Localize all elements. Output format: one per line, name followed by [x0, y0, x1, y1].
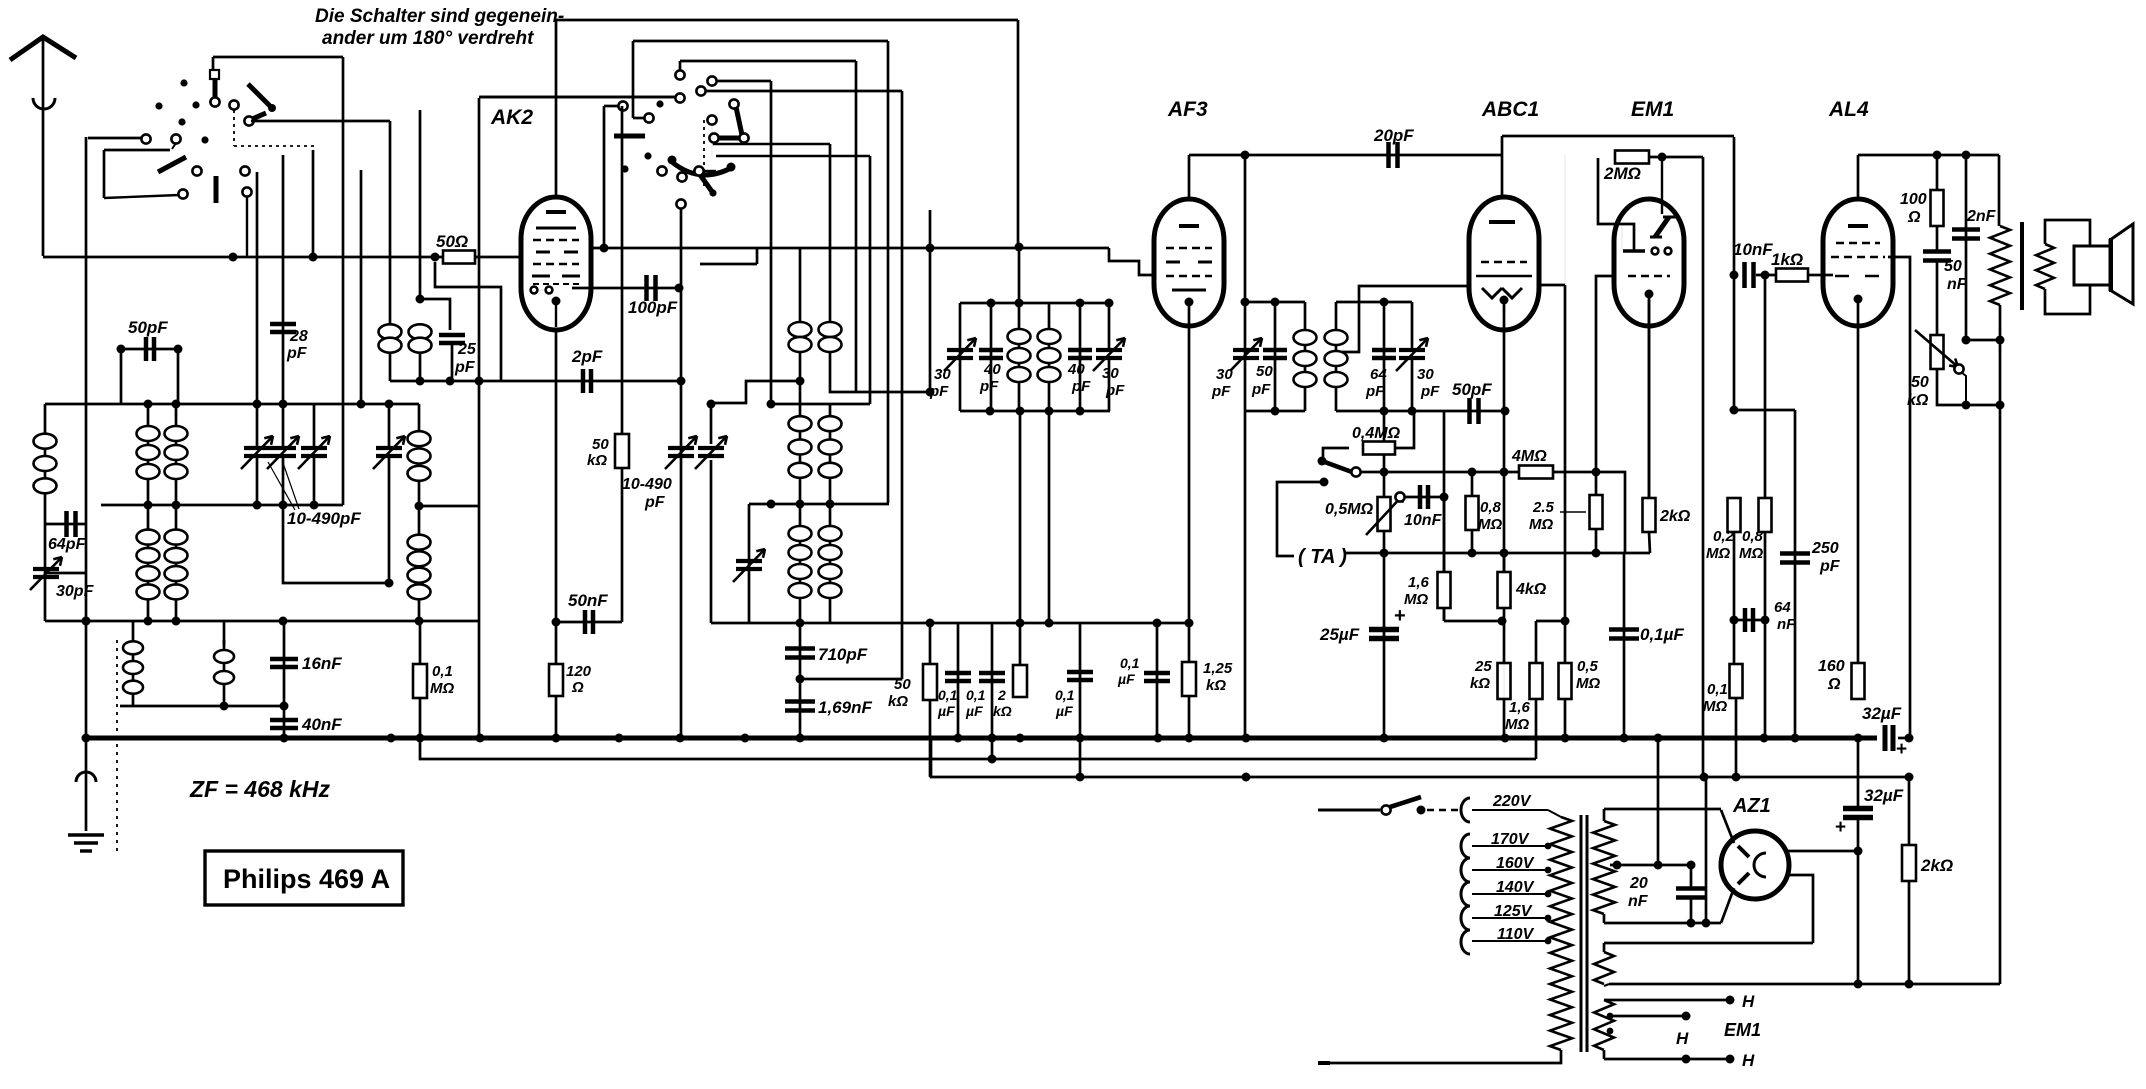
tube AK2 grid	[532, 275, 580, 278]
svg-text:AF3: AF3	[1167, 98, 1208, 121]
resistor 0.5Mohm	[1564, 621, 1567, 738]
resistor 50kohm	[615, 434, 629, 468]
wire AK2 anode to AF3 grid	[591, 247, 1109, 250]
wire	[1649, 156, 1703, 159]
wire right side down	[1999, 405, 2002, 984]
IF1 bottom	[960, 410, 1110, 413]
wire	[1244, 155, 1247, 302]
svg-text:220V: 220V	[1492, 793, 1532, 810]
svg-text:ABC1: ABC1	[1481, 98, 1539, 121]
heater tap2	[1607, 1028, 1614, 1035]
svg-text:µF: µF	[1117, 671, 1135, 687]
switch S2 box2	[633, 40, 888, 43]
tube AL4 cathode	[1854, 295, 1863, 304]
coil	[389, 325, 392, 381]
svg-text:µF: µF	[937, 703, 955, 719]
tube EM1 contacts	[1652, 248, 1659, 255]
ganged capacitor 10-490pF	[244, 448, 270, 456]
svg-text:2pF: 2pF	[571, 347, 603, 366]
node	[1076, 773, 1085, 782]
wire	[419, 110, 422, 299]
transformer secondary HV	[1593, 821, 1615, 914]
wire AZ1 out	[1788, 850, 1858, 853]
svg-text:4MΩ: 4MΩ	[1511, 448, 1547, 465]
tube ABC1 grids	[1481, 261, 1527, 263]
svg-text:10nF: 10nF	[1404, 512, 1443, 529]
wire EM1 cathode	[1648, 294, 1651, 498]
coil L2	[147, 404, 150, 504]
osc coil mid	[799, 381, 802, 505]
pot 50kohm	[1931, 335, 1944, 369]
svg-text:EM1: EM1	[1631, 98, 1674, 121]
tube AK2	[521, 197, 591, 330]
svg-text:50: 50	[1911, 374, 1929, 391]
tube AF3 grids	[1166, 247, 1212, 249]
node	[1613, 861, 1622, 870]
svg-text:30: 30	[1102, 365, 1119, 382]
tube ABC1	[1469, 197, 1539, 330]
svg-text:pF: pF	[979, 378, 999, 395]
wire	[44, 573, 47, 621]
wire	[800, 678, 902, 681]
switch S1 contacts	[192, 166, 201, 175]
wire	[1733, 137, 1736, 410]
svg-text:0,1µF: 0,1µF	[1640, 625, 1684, 644]
svg-text:MΩ: MΩ	[1404, 591, 1428, 608]
trimmer	[376, 448, 402, 456]
svg-text:50pF: 50pF	[1452, 380, 1492, 399]
svg-text:pF: pF	[1819, 558, 1841, 575]
svg-text:250: 250	[1811, 540, 1839, 557]
node	[796, 377, 805, 386]
capacitor 2pF	[390, 380, 681, 383]
capacitor 1.69nF	[785, 702, 815, 711]
svg-text:Die Schalter sind gegenein-: Die Schalter sind gegenein-	[315, 6, 564, 27]
resistor 1.6Mohm	[1443, 553, 1445, 621]
switch S2	[694, 166, 703, 175]
resistor 160ohm	[1852, 663, 1865, 699]
resistor 4kohm	[1503, 553, 1506, 738]
svg-text:2: 2	[997, 687, 1006, 703]
wire	[771, 403, 870, 406]
svg-text:125V: 125V	[1494, 903, 1533, 920]
svg-text:nF: nF	[1777, 616, 1796, 633]
resistor 1kohm	[1776, 269, 1808, 282]
trimmer 30pF	[1108, 303, 1111, 349]
svg-text:0,1: 0,1	[1707, 681, 1728, 698]
capacitor 50nF	[1923, 252, 1951, 261]
node	[416, 377, 425, 386]
svg-text:0,4MΩ: 0,4MΩ	[1352, 425, 1401, 442]
svg-text:kΩ: kΩ	[1206, 677, 1226, 694]
node	[82, 617, 91, 626]
svg-text:MΩ: MΩ	[1706, 545, 1730, 562]
tap 110V	[1461, 930, 1470, 954]
small coil	[132, 621, 135, 706]
capacitor 10nF	[1404, 496, 1444, 499]
svg-text:64: 64	[1774, 599, 1791, 616]
svg-text:pF: pF	[1211, 383, 1231, 400]
tube AF3 topcap	[1188, 155, 1191, 199]
resistor 0.8Mohm	[1471, 472, 1474, 553]
svg-text:40nF: 40nF	[301, 715, 342, 734]
tube EM1 grid dash	[1628, 275, 1670, 277]
wire AVC y472	[1361, 471, 1519, 474]
svg-text:H: H	[1676, 1029, 1689, 1048]
capacitor 10nF	[1745, 262, 1754, 288]
wire	[959, 303, 961, 411]
switch S2	[676, 199, 685, 208]
wire	[419, 505, 479, 508]
resistor 2kohm	[1019, 411, 1022, 665]
wire	[931, 738, 1909, 777]
svg-text:2.5: 2.5	[1532, 499, 1555, 516]
svg-text:2kΩ: 2kΩ	[1920, 856, 1953, 875]
svg-text:ZF = 468 kHz: ZF = 468 kHz	[189, 776, 330, 802]
svg-text:H: H	[1742, 992, 1755, 1011]
wire	[120, 349, 123, 404]
svg-text:10-490: 10-490	[622, 476, 672, 493]
small coil	[223, 640, 226, 706]
tube AL4 grids	[1836, 242, 1880, 244]
osc coil mid	[829, 404, 832, 505]
wire	[256, 172, 259, 404]
svg-text:64pF: 64pF	[48, 536, 87, 553]
svg-text:0,5MΩ: 0,5MΩ	[1325, 501, 1374, 518]
svg-text:40: 40	[1067, 361, 1085, 378]
wire y504	[749, 503, 889, 506]
svg-text:kΩ: kΩ	[1470, 675, 1490, 692]
wire	[711, 381, 800, 403]
speaker	[2074, 246, 2110, 285]
svg-text:10nF: 10nF	[1733, 240, 1773, 259]
wire	[1536, 620, 1565, 623]
wire y623	[711, 622, 1189, 625]
svg-text:MΩ: MΩ	[1739, 545, 1763, 562]
transformer bottom	[1322, 1050, 1561, 1063]
output transformer secondary	[2036, 244, 2054, 289]
svg-text:32µF: 32µF	[1862, 704, 1902, 723]
svg-text:25µF: 25µF	[1319, 625, 1360, 644]
svg-text:110V: 110V	[1497, 926, 1535, 943]
svg-text:AL4: AL4	[1828, 98, 1869, 121]
tube ABC1 cathode	[1500, 296, 1509, 305]
switch S1 contact	[210, 70, 219, 79]
node	[229, 253, 238, 262]
svg-text:160: 160	[1818, 658, 1845, 675]
dotted line	[116, 640, 118, 855]
wire	[1733, 637, 1735, 664]
resistor 2kohm out	[1908, 777, 1911, 984]
wire center tap	[1610, 864, 1691, 867]
capacitor 32uF b	[1857, 738, 1860, 808]
node	[1905, 773, 1914, 782]
wire	[251, 120, 390, 123]
wire 50ohm to AK2	[474, 256, 521, 259]
heater line	[420, 738, 1536, 759]
svg-text:30: 30	[1216, 366, 1233, 383]
coil IF1a	[1018, 303, 1021, 411]
wire	[603, 106, 606, 248]
switch S2 box3	[680, 60, 856, 63]
wire AL4 grid entry	[1824, 274, 1833, 277]
svg-text:100: 100	[1900, 191, 1927, 208]
tube AZ1	[1721, 831, 1789, 899]
switch S2 wires	[675, 93, 684, 102]
resistor 0.2Mohm	[1728, 498, 1741, 532]
svg-text:1,25: 1,25	[1203, 660, 1233, 677]
svg-text:50: 50	[592, 436, 609, 453]
switch S1 arm	[158, 157, 186, 172]
node	[1380, 549, 1389, 558]
capacitor 28pF	[270, 324, 296, 332]
capacitor 0.1uF	[1623, 553, 1626, 738]
svg-text:MΩ: MΩ	[1703, 698, 1727, 715]
resistor 2kohm ABC1	[1648, 300, 1651, 500]
capacitor 0.1uF	[1079, 623, 1082, 777]
wire right column	[419, 621, 422, 665]
transformer secondary 3	[1594, 1000, 1614, 1050]
svg-text:pF: pF	[1105, 382, 1125, 399]
tube AK2 topcap	[555, 20, 558, 197]
tube EM1 target	[1622, 224, 1634, 250]
node	[988, 755, 997, 764]
svg-text:pF: pF	[1420, 383, 1440, 400]
capacitor 25uF electrolytic	[1383, 553, 1386, 738]
capacitor 100pF	[572, 287, 679, 290]
svg-text:MΩ: MΩ	[430, 680, 454, 697]
switch S2 box	[556, 19, 1018, 22]
transformer core	[1580, 815, 1583, 1052]
switch S1 contacts	[141, 134, 150, 143]
box	[478, 98, 481, 738]
svg-text:pF: pF	[1365, 383, 1385, 400]
switch S2	[707, 115, 716, 124]
osc coil low	[829, 505, 832, 623]
svg-text:50Ω: 50Ω	[436, 232, 468, 251]
svg-text:50: 50	[1256, 363, 1273, 380]
node	[796, 619, 805, 628]
wire AL4 top	[1858, 154, 1999, 157]
svg-text:MΩ: MΩ	[1576, 675, 1600, 692]
wire	[929, 210, 932, 392]
vertical	[680, 203, 683, 738]
svg-text:kΩ: kΩ	[1907, 392, 1929, 409]
svg-text:50pF: 50pF	[128, 318, 168, 337]
wire	[1535, 699, 1537, 759]
tube EM1	[1614, 199, 1684, 326]
svg-text:kΩ: kΩ	[587, 452, 607, 469]
wire	[1443, 411, 1446, 621]
IF2 sec top	[1336, 301, 1412, 304]
resistor 2.5Mohm	[1595, 472, 1598, 553]
svg-text:+: +	[1835, 817, 1846, 838]
svg-text:pF: pF	[454, 359, 476, 376]
wire 20pF branch	[1564, 155, 1566, 621]
coil L4	[147, 504, 150, 621]
resistor 50kohm	[929, 623, 932, 777]
osc coil low	[799, 505, 802, 623]
output transformer primary	[1998, 155, 2001, 226]
tube AF3 cathode	[1185, 298, 1194, 307]
svg-text:64: 64	[1370, 366, 1387, 383]
wire	[621, 106, 624, 622]
wire	[1048, 411, 1051, 623]
coil L5	[175, 504, 178, 621]
tube ABC1 topcap	[1501, 136, 1504, 197]
wire y411	[1412, 410, 1505, 413]
trimmer 30pF	[45, 572, 86, 575]
svg-text:120: 120	[566, 663, 592, 680]
node	[144, 400, 153, 409]
node	[1015, 243, 1024, 252]
svg-text:10-490pF: 10-490pF	[287, 509, 361, 528]
svg-text:1kΩ: 1kΩ	[1771, 250, 1803, 269]
svg-text:160V: 160V	[1496, 855, 1535, 872]
wire bus top	[45, 403, 419, 406]
svg-text:pF: pF	[929, 383, 949, 400]
IF2 bottom	[1245, 410, 1305, 413]
svg-text:EM1: EM1	[1724, 1020, 1761, 1040]
trimmer 30pF	[1411, 302, 1414, 349]
IF2 top	[1245, 301, 1305, 304]
tube ABC1 diodes	[1482, 288, 1522, 298]
switch S2	[656, 100, 663, 107]
svg-text:AK2: AK2	[490, 106, 533, 129]
wire y410	[1734, 409, 1795, 412]
wire	[1383, 411, 1386, 472]
svg-text:0,1: 0,1	[432, 663, 453, 680]
tube AK2 cathode	[552, 297, 561, 306]
capacitor 20nF	[1690, 865, 1693, 887]
switch S2 rotor	[729, 99, 738, 108]
svg-text:4kΩ: 4kΩ	[1515, 581, 1547, 598]
tap 220V	[1461, 798, 1470, 822]
node	[415, 502, 424, 511]
wire	[282, 155, 285, 404]
svg-text:20: 20	[1629, 875, 1648, 892]
wire HV bottom	[1604, 922, 1721, 925]
wire TA line	[1344, 552, 1650, 555]
switch S1 dots	[180, 79, 187, 86]
heater wire H3	[1603, 1050, 1606, 1059]
capacitor 40pF	[1079, 303, 1082, 411]
svg-text:Ω: Ω	[1827, 676, 1841, 693]
antenna	[10, 37, 76, 60]
svg-text:32µF: 32µF	[1864, 786, 1904, 805]
wire AZ1 plate2	[1721, 888, 1734, 923]
wire AZ1 plate1	[1721, 810, 1734, 843]
svg-text:+: +	[1896, 739, 1907, 760]
resistor 1.6Mohm b	[1535, 621, 1537, 738]
ground bus	[85, 736, 1877, 741]
svg-text:2MΩ: 2MΩ	[1603, 164, 1641, 183]
wire	[283, 458, 389, 583]
capacitor 16nF	[283, 621, 286, 739]
wire	[1937, 369, 1966, 405]
wire TA stub	[1320, 478, 1329, 487]
osc coil	[829, 144, 832, 355]
wire	[223, 621, 226, 646]
svg-text:AZ1: AZ1	[1732, 795, 1771, 817]
svg-text:20pF: 20pF	[1373, 126, 1414, 145]
tube EM1 cathode	[1645, 290, 1654, 299]
node	[926, 244, 935, 253]
switch S1 contact	[229, 100, 238, 109]
svg-text:pF: pF	[1251, 381, 1271, 398]
svg-text:Ω: Ω	[1907, 209, 1921, 226]
coil L6	[418, 404, 421, 506]
wire	[85, 137, 88, 739]
svg-text:( TA ): ( TA )	[1298, 546, 1347, 568]
svg-text:1,6: 1,6	[1408, 574, 1430, 591]
pot 0.5Mohm	[1383, 472, 1386, 553]
wire	[1535, 621, 1538, 664]
switch S2	[707, 76, 716, 85]
svg-text:pF: pF	[644, 494, 666, 511]
capacitor 0.1uF	[991, 623, 994, 759]
wire IF1 to AF3	[1109, 248, 1156, 275]
tap 125V	[1461, 906, 1470, 930]
wire AK2 cathode	[555, 330, 558, 738]
svg-text:140V: 140V	[1496, 879, 1535, 896]
tube AF3	[1154, 199, 1224, 326]
svg-text:0,1: 0,1	[1120, 655, 1140, 671]
svg-text:0,1: 0,1	[966, 687, 986, 703]
resistor 0.8Mohm	[1759, 498, 1772, 532]
svg-text:µF: µF	[965, 703, 983, 719]
capacitor 64pF	[45, 523, 86, 526]
svg-text:0,2: 0,2	[1713, 528, 1735, 545]
trimmer	[698, 448, 724, 456]
wire ABC1 anode to EM1	[1502, 135, 1734, 138]
wire antenna to 50ohm	[43, 256, 444, 259]
svg-text:1,69nF: 1,69nF	[818, 698, 872, 717]
heater tap	[1607, 1013, 1614, 1020]
osc coil	[799, 248, 802, 381]
wire AF3 cathode down	[1188, 302, 1191, 623]
capacitor 64nF	[1733, 532, 1736, 664]
capacitor 40pF	[990, 303, 993, 411]
heater wire H1	[1604, 999, 1730, 1002]
resistor 0.4Mohm	[1323, 448, 1349, 459]
capacitor 32uF	[1885, 725, 1893, 751]
resistor 0.1Mohm	[413, 664, 427, 698]
svg-text:0,1: 0,1	[938, 687, 958, 703]
svg-text:kΩ: kΩ	[993, 703, 1012, 719]
svg-text:H: H	[1742, 1051, 1755, 1070]
resistor 25kohm	[1498, 663, 1511, 699]
svg-text:1,6: 1,6	[1509, 699, 1531, 716]
svg-text:710pF: 710pF	[818, 645, 868, 664]
svg-text:30: 30	[934, 366, 951, 383]
wire	[1649, 532, 1650, 553]
wire	[1705, 777, 1708, 923]
wire	[360, 170, 363, 404]
node	[1730, 271, 1739, 280]
svg-text:MΩ: MΩ	[1505, 716, 1529, 733]
svg-text:0,1: 0,1	[1055, 687, 1075, 703]
tube AK2 anode	[536, 227, 576, 230]
resistor 50ohm	[443, 251, 475, 264]
wire AF3 anode	[1189, 154, 1503, 157]
wire	[389, 121, 392, 325]
svg-text:0,8: 0,8	[1480, 499, 1502, 516]
svg-text:25: 25	[457, 341, 477, 358]
wire	[1604, 984, 1609, 986]
svg-text:MΩ: MΩ	[1529, 516, 1553, 533]
wire AZ1 filament	[1789, 875, 1813, 943]
